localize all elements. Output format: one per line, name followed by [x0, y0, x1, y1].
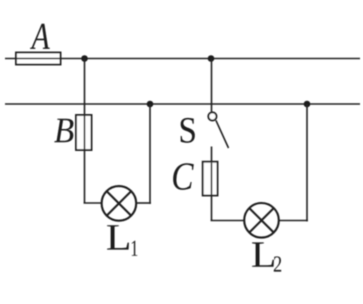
wire: B branch vertical drop: [84, 59, 86, 204]
node: junction top-left: [81, 55, 88, 62]
label C: [173, 163, 194, 190]
wire: lamp L1 left lead: [84, 202, 102, 204]
label L1: [107, 225, 129, 249]
wire: L1 return riser: [149, 104, 151, 204]
wire: switch lower lead to fuse C: [211, 147, 213, 221]
wire: through fuse B: [84, 116, 86, 149]
lamp L2: [244, 203, 279, 238]
node: junction bottom-right: [304, 101, 311, 108]
node: junction bottom-left: [147, 101, 154, 108]
label B: [54, 119, 73, 143]
label A: [30, 24, 50, 49]
wire: L2 return riser: [306, 104, 308, 221]
label L2: [252, 242, 274, 266]
wire: lamp L1 right lead: [136, 202, 151, 204]
wire: bottom supply rail: [5, 103, 360, 105]
switch S pivot: [208, 112, 216, 120]
lamp L1: [102, 186, 137, 221]
wire: lamp L2 right lead: [279, 220, 308, 222]
switch S blade: [216, 120, 229, 148]
fuse box C: [203, 162, 218, 196]
wire: top supply rail: [5, 58, 360, 60]
wire: through fuse C: [211, 163, 213, 195]
wire: lamp L2 left lead: [211, 220, 245, 222]
wire: switch branch drop from top rail: [211, 59, 213, 112]
fuse box B: [76, 115, 92, 150]
label S: [181, 118, 195, 143]
wire: through fuse A: [17, 58, 60, 60]
fuse box A: [16, 53, 61, 65]
node: junction top-right: [208, 55, 215, 62]
